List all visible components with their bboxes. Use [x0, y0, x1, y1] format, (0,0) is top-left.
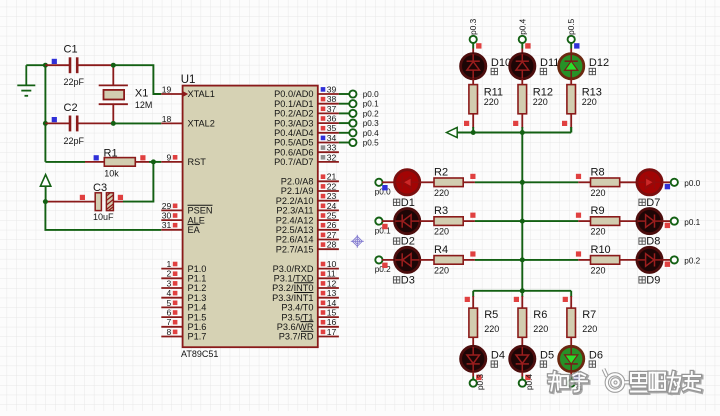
svg-text:25: 25 [327, 211, 337, 221]
svg-text:P0.1/AD1: P0.1/AD1 [274, 99, 313, 109]
crystal X1 [99, 65, 128, 123]
junction [151, 159, 156, 164]
lead D5 to terminal [521, 372, 523, 377]
pin 23 P2.2/A10 [276, 191, 339, 206]
svg-text:32: 32 [327, 152, 337, 162]
terminal p0.1 left [375, 218, 382, 225]
wire pin to terminal p0.3 [339, 122, 350, 124]
svg-text:31: 31 [162, 220, 172, 230]
svg-text:D12: D12 [589, 57, 609, 69]
svg-text:D7: D7 [646, 197, 660, 209]
pin 2 P1.1 [161, 269, 206, 284]
svg-text:D10: D10 [491, 57, 511, 69]
svg-text:p0.0: p0.0 [363, 90, 379, 99]
svg-text:P2.0/A8: P2.0/A8 [281, 177, 314, 187]
svg-text:12M: 12M [135, 100, 153, 110]
terminal p0.1 right [671, 218, 678, 225]
wire top bus [457, 132, 571, 134]
svg-text:p0.2: p0.2 [363, 109, 379, 118]
blue marker C1 [52, 59, 57, 64]
svg-text:220: 220 [591, 227, 606, 237]
svg-text:28: 28 [327, 240, 337, 250]
label 绿 [589, 361, 595, 367]
svg-text:22: 22 [327, 181, 337, 191]
svg-text:P0.3/AD3: P0.3/AD3 [274, 118, 313, 128]
svg-text:30: 30 [162, 211, 172, 221]
svg-text:5: 5 [167, 298, 172, 308]
wire ground to C1 node [26, 64, 45, 66]
pin 7 P1.6 [161, 317, 206, 332]
resistor R5 body [469, 308, 478, 337]
svg-text:D3: D3 [401, 275, 415, 287]
svg-text:9: 9 [167, 152, 172, 162]
marker p0.5 [574, 375, 579, 380]
svg-text:R10: R10 [591, 244, 611, 256]
wire R4 to trunk [475, 259, 522, 261]
marker p0.3 [476, 375, 481, 380]
terminal p0.0 left [375, 179, 382, 186]
svg-text:10k: 10k [104, 168, 119, 178]
svg-text:8: 8 [167, 327, 172, 337]
marker p0.0 right [665, 184, 670, 189]
terminal p0.2 left [375, 256, 382, 263]
pin 5 P1.4 [161, 298, 206, 313]
pin 39 P0.0/AD0 [274, 84, 339, 99]
svg-text:p0.3: p0.3 [363, 119, 379, 128]
pin 4 P1.3 [161, 288, 206, 303]
red marker R5 [465, 297, 470, 302]
svg-text:36: 36 [327, 114, 337, 124]
cursor [351, 235, 364, 248]
wire crystal to XTAL1 [113, 65, 161, 94]
red marker R8 [576, 174, 581, 179]
pin 10 P3.0/RXD [273, 259, 339, 274]
marker p0.0 left [382, 185, 387, 190]
lead R8 to D7 [620, 181, 638, 183]
wire trunk vertical [521, 133, 523, 291]
red marker R11 [464, 121, 469, 126]
pin 6 P1.5 [161, 308, 206, 323]
svg-text:p0.4: p0.4 [363, 129, 379, 138]
lead D7 to terminal [662, 181, 671, 183]
red marker C3 left [80, 195, 85, 200]
svg-text:18: 18 [162, 114, 172, 124]
wire bus to R6 [521, 291, 523, 297]
resistor R2 body [434, 178, 463, 187]
label 黄 [540, 68, 546, 74]
svg-text:P1.4: P1.4 [188, 303, 207, 313]
label 红 [491, 68, 497, 74]
svg-text:220: 220 [434, 265, 449, 275]
pin 17 P3.7/RD [279, 327, 339, 342]
capacitor C2 [45, 116, 113, 132]
svg-text:10: 10 [327, 259, 337, 269]
svg-text:ALE: ALE [188, 215, 205, 225]
svg-text:R7: R7 [582, 309, 596, 321]
svg-text:C3: C3 [93, 182, 107, 194]
pin 11 P3.1/TXD [274, 269, 339, 284]
wire R2 to trunk [475, 181, 522, 183]
led D12 [559, 54, 584, 79]
svg-text:P1.1: P1.1 [188, 274, 207, 284]
svg-text:35: 35 [327, 123, 337, 133]
svg-text:220: 220 [591, 265, 606, 275]
junction [43, 63, 48, 68]
lead wire to R10 [578, 259, 590, 261]
svg-text:23: 23 [327, 191, 337, 201]
svg-text:P3.7/RD: P3.7/RD [279, 332, 314, 342]
svg-text:39: 39 [327, 84, 337, 94]
lead bus to R7 [570, 296, 572, 308]
svg-text:R8: R8 [591, 166, 605, 178]
blue marker C2 [52, 117, 57, 122]
terminal p0.5 [568, 36, 575, 43]
led D3 [395, 247, 420, 272]
lead D6 to terminal [570, 372, 572, 377]
wire bus to R7 [570, 291, 572, 297]
terminal p0.0 [349, 90, 356, 97]
terminal p0.2 [349, 110, 356, 117]
led D8 [637, 209, 662, 234]
terminal p0.4 [349, 129, 356, 136]
svg-text:P2.6/A14: P2.6/A14 [276, 235, 314, 245]
label 绿 [639, 277, 645, 283]
svg-text:D8: D8 [646, 236, 660, 248]
pin 38 P0.1/AD1 [274, 94, 339, 109]
pin 9 RST [161, 152, 206, 167]
svg-text:21: 21 [327, 172, 337, 182]
red marker C3 right [118, 195, 123, 200]
pin 21 P2.0/A8 [281, 172, 339, 187]
svg-text:3: 3 [167, 278, 172, 288]
lead D4 to terminal [472, 372, 474, 377]
svg-text:p0.3: p0.3 [476, 374, 485, 390]
led D6 [559, 346, 584, 371]
svg-text:220: 220 [434, 188, 449, 198]
terminal p0.2 right [671, 256, 678, 263]
wire to R1 [45, 161, 85, 163]
svg-text:220: 220 [582, 324, 597, 334]
svg-text:220: 220 [533, 97, 548, 107]
lead terminal to D10 [472, 43, 474, 49]
marker p0.5 [574, 43, 579, 48]
terminal p0.1 [349, 100, 356, 107]
wire crystal to XTAL2 [113, 122, 161, 124]
junction [520, 130, 525, 135]
pin 33 P0.6/AD6 [274, 143, 339, 158]
svg-text:C2: C2 [64, 102, 78, 114]
lead R6 to D5 [521, 337, 523, 347]
wire pin to terminal p0.1 [339, 103, 350, 105]
lead D12 to R13 [570, 79, 572, 85]
svg-text:P0.7/AD7: P0.7/AD7 [274, 157, 313, 167]
capacitor C1 [45, 57, 113, 73]
svg-text:R6: R6 [533, 309, 547, 321]
pin 27 P2.6/A14 [276, 230, 339, 245]
lead bus to R5 [472, 296, 474, 308]
resistor R8 body [591, 178, 620, 187]
svg-text:R2: R2 [434, 166, 448, 178]
svg-text:P2.7/A15: P2.7/A15 [276, 244, 314, 254]
lead R4 to wire [463, 259, 475, 261]
svg-text:D5: D5 [540, 349, 554, 361]
junction [520, 257, 525, 262]
svg-text:R5: R5 [484, 309, 498, 321]
svg-text:P3.5/T1: P3.5/T1 [281, 312, 313, 322]
svg-text:R3: R3 [434, 205, 448, 217]
svg-text:17: 17 [327, 327, 337, 337]
wire pin to terminal p0.0 [339, 93, 350, 95]
terminal p0.3 [470, 36, 477, 43]
svg-text:P3.4/T0: P3.4/T0 [281, 303, 313, 313]
svg-text:4: 4 [167, 288, 172, 298]
junction [111, 63, 116, 68]
wire R1 to RST [149, 161, 161, 163]
led D4 [461, 346, 486, 371]
pin 13 P3.3/INT1 [272, 288, 339, 303]
svg-text:p0.5: p0.5 [567, 18, 576, 34]
pin 1 P1.0 [161, 259, 206, 274]
resistor R3 body [434, 217, 463, 226]
label 黄 [393, 238, 399, 244]
svg-text:p0.3: p0.3 [469, 18, 478, 34]
svg-text:P1.5: P1.5 [188, 312, 207, 322]
resistor R1 [85, 158, 149, 167]
lead D8 to terminal [662, 220, 671, 222]
wire left vertical C1-C2-R1 [44, 65, 46, 162]
svg-text:33: 33 [327, 143, 337, 153]
lead terminal to D1 [382, 181, 395, 183]
pin 37 P0.2/AD2 [274, 104, 339, 119]
svg-text:EA: EA [188, 225, 201, 235]
lead terminal to D11 [521, 43, 523, 49]
red marker R12 [513, 121, 518, 126]
label 红 [491, 361, 497, 367]
lead R2 to wire [463, 181, 475, 183]
svg-text:27: 27 [327, 230, 337, 240]
svg-text:24: 24 [327, 201, 337, 211]
svg-text:P2.5/A13: P2.5/A13 [276, 225, 314, 235]
pin 18 XTAL2 [161, 114, 215, 129]
bus arrow left [447, 127, 458, 137]
lead D1 to R2 [420, 181, 434, 183]
red marker R10 [576, 251, 581, 256]
wire to bus [521, 127, 523, 133]
svg-text:P0.6/AD6: P0.6/AD6 [274, 147, 313, 157]
junction [43, 199, 48, 204]
marker p0.3 [476, 43, 481, 48]
svg-text:D6: D6 [589, 349, 603, 361]
led D2 [395, 209, 420, 234]
svg-text:p0.4: p0.4 [518, 18, 527, 34]
terminal p0.0 right [671, 179, 678, 186]
resistor R9 body [591, 217, 620, 226]
wire pin to terminal p0.5 [339, 142, 350, 144]
svg-text:p0.2: p0.2 [684, 257, 700, 266]
XTAL1 input wedge [183, 91, 189, 97]
label 绿 [589, 68, 595, 74]
red marker R1 [140, 155, 145, 160]
svg-text:P1.3: P1.3 [188, 293, 207, 303]
pin 28 P2.7/A15 [276, 240, 339, 255]
junction [520, 219, 525, 224]
label 红 [393, 199, 399, 205]
junction [111, 121, 116, 126]
svg-text:D2: D2 [401, 236, 415, 248]
red marker R9 [576, 213, 581, 218]
svg-text:15: 15 [327, 308, 337, 318]
wire pin to terminal p0.4 [339, 132, 350, 134]
label 黄 [540, 361, 546, 367]
svg-text:X1: X1 [135, 88, 148, 100]
terminal p0.5 [568, 380, 575, 387]
svg-text:p0.5: p0.5 [363, 139, 379, 148]
pin 35 P0.4/AD4 [274, 123, 339, 138]
pin 34 P0.5/AD5 [274, 133, 339, 148]
wire bus to R5 [472, 291, 474, 297]
pin 8 P1.7 [161, 327, 206, 342]
lead R9 to D8 [620, 220, 638, 222]
pin 22 P2.1/A9 [281, 181, 339, 196]
wire trunk to R9 [522, 220, 578, 222]
junction [43, 121, 48, 126]
lead terminal to D12 [570, 43, 572, 49]
lead terminal to D2 [382, 220, 395, 222]
pin 12 P3.2/INT0 [272, 278, 339, 293]
wire trunk to R8 [522, 181, 578, 183]
pin 29 PSEN [161, 201, 212, 216]
led D11 [510, 54, 535, 79]
svg-text:P1.2: P1.2 [188, 283, 207, 293]
lead R5 to D4 [472, 337, 474, 347]
svg-text:13: 13 [327, 288, 337, 298]
svg-text:RST: RST [188, 157, 207, 167]
svg-text:10uF: 10uF [93, 212, 114, 222]
resistor R7 body [567, 308, 576, 337]
pin 36 P0.3/AD3 [274, 114, 339, 129]
lead wire to R8 [578, 181, 590, 183]
svg-text:D11: D11 [540, 57, 559, 69]
pin 32 P0.7/AD7 [274, 152, 339, 167]
marker p0.2 left [382, 263, 387, 268]
svg-text:PSEN: PSEN [188, 206, 213, 216]
svg-text:P1.7: P1.7 [188, 332, 207, 342]
lead R10 to D9 [620, 259, 638, 261]
svg-text:P0.5/AD5: P0.5/AD5 [274, 138, 313, 148]
lead bus to R6 [521, 296, 523, 308]
svg-text:220: 220 [434, 227, 449, 237]
svg-text:D1: D1 [401, 197, 415, 209]
svg-text:P3.0/RXD: P3.0/RXD [273, 264, 314, 274]
led D10 [461, 54, 486, 79]
svg-text:C1: C1 [64, 44, 78, 56]
svg-text:P2.3/A11: P2.3/A11 [276, 206, 313, 216]
pin 16 P3.6/WR [277, 317, 339, 332]
lead D2 to R3 [420, 220, 434, 222]
svg-text:p0.4: p0.4 [525, 374, 534, 390]
pin 3 P1.2 [161, 278, 206, 293]
marker p0.1 right [665, 223, 670, 228]
svg-text:P1.0: P1.0 [188, 264, 207, 274]
lead terminal to D3 [382, 259, 395, 261]
lead D9 to terminal [662, 259, 671, 261]
blue marker R1 [94, 155, 99, 160]
lead R11 to bus [472, 114, 474, 128]
wire bottom bus [473, 290, 571, 292]
wire to bus [570, 127, 572, 133]
svg-text:26: 26 [327, 220, 337, 230]
wire to EA [45, 202, 161, 230]
svg-text:P0.2/AD2: P0.2/AD2 [274, 109, 313, 119]
svg-text:P2.1/A9: P2.1/A9 [281, 186, 314, 196]
svg-text:7: 7 [167, 317, 172, 327]
svg-text:p0.0: p0.0 [684, 179, 700, 188]
svg-text:R9: R9 [591, 205, 605, 217]
svg-text:P1.6: P1.6 [188, 322, 207, 332]
svg-text:1: 1 [167, 259, 172, 269]
label 红 [639, 199, 645, 205]
wire trunk to R10 [522, 259, 578, 261]
mcu U1 body [183, 86, 318, 348]
resistor R12 body [518, 85, 527, 114]
led D9 [637, 247, 662, 272]
red marker R3 [470, 213, 475, 218]
marker p0.1 left [382, 224, 387, 229]
resistor R6 body [518, 308, 527, 337]
led D1 [395, 170, 420, 195]
svg-text:P3.3/INT1: P3.3/INT1 [272, 293, 313, 303]
pin 30 ALE [161, 211, 205, 226]
ground [17, 65, 35, 96]
svg-text:P2.2/A10: P2.2/A10 [276, 196, 314, 206]
red marker R4 [470, 251, 475, 256]
svg-text:P2.4/A12: P2.4/A12 [276, 215, 314, 225]
svg-text:D9: D9 [646, 275, 660, 287]
svg-text:D4: D4 [491, 349, 505, 361]
lead wire to R9 [578, 220, 590, 222]
svg-text:34: 34 [327, 133, 337, 143]
pin 31 EA [161, 220, 200, 235]
wire to bus [472, 127, 474, 133]
red marker R13 [562, 121, 567, 126]
terminal p0.4 [519, 380, 526, 387]
svg-text:2: 2 [167, 269, 172, 279]
led D5 [510, 346, 535, 371]
svg-text:P3.2/INT0: P3.2/INT0 [272, 283, 313, 293]
svg-text:p0.1: p0.1 [363, 100, 379, 109]
lead R13 to bus [570, 114, 572, 128]
resistor R10 body [591, 256, 620, 265]
svg-text:6: 6 [167, 308, 172, 318]
svg-text:12: 12 [327, 278, 337, 288]
svg-text:38: 38 [327, 94, 337, 104]
svg-text:14: 14 [327, 298, 337, 308]
svg-text:220: 220 [591, 188, 606, 198]
terminal p0.5 [349, 139, 356, 146]
svg-text:P0.0/AD0: P0.0/AD0 [274, 89, 313, 99]
marker p0.2 right [665, 262, 670, 267]
svg-text:22pF: 22pF [64, 77, 85, 87]
resistor R4 body [434, 256, 463, 265]
wire RST down to C3 [123, 162, 153, 202]
terminal p0.3 [470, 380, 477, 387]
lead D3 to R4 [420, 259, 434, 261]
label 黄 [639, 238, 645, 244]
red marker R6 [514, 297, 519, 302]
svg-text:220: 220 [484, 97, 499, 107]
svg-text:11: 11 [327, 269, 336, 279]
resistor R13 body [567, 85, 576, 114]
